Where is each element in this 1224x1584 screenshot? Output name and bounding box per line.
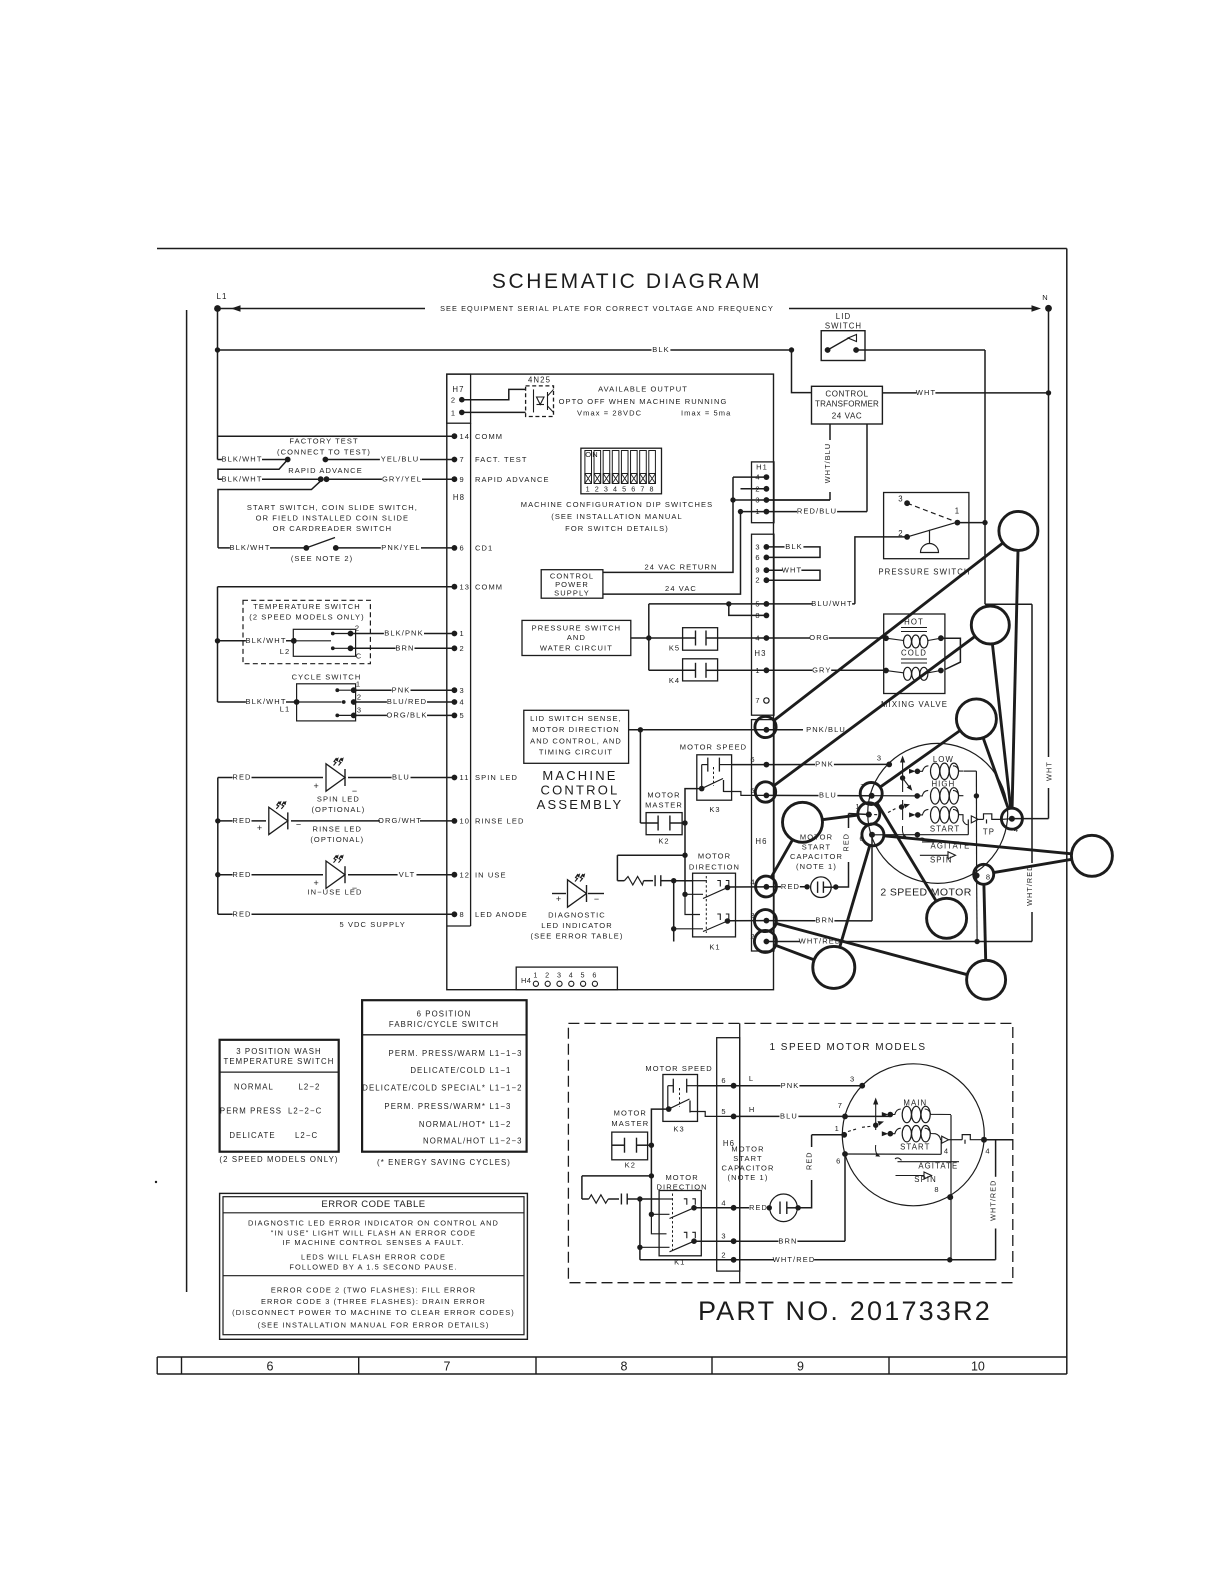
in-use LED D3 (215, 872, 220, 877)
svg-text:FABRIC/CYCLE SWITCH: FABRIC/CYCLE SWITCH (389, 1020, 499, 1029)
svg-text:LED INDICATOR: LED INDICATOR (541, 921, 613, 930)
svg-text:2: 2 (545, 971, 550, 980)
svg-text:LID: LID (836, 312, 851, 321)
motor terminal 6 (869, 832, 875, 838)
svg-text:BRN: BRN (395, 643, 414, 652)
svg-text:ASSEMBLY: ASSEMBLY (537, 797, 624, 812)
rinse LED D2 (215, 818, 220, 823)
wire BLU/WHT H3-5 (649, 603, 855, 605)
svg-text:RED/BLU: RED/BLU (797, 507, 837, 516)
svg-text:START: START (802, 842, 831, 851)
START winding (1 speed) (882, 1131, 889, 1136)
annotation line B to BLU pin (774, 636, 976, 786)
svg-text:MOTOR DIRECTION: MOTOR DIRECTION (532, 725, 620, 734)
svg-text:K2: K2 (658, 837, 669, 846)
1 speed motor models dashed box (568, 1023, 1012, 1282)
svg-text:Vmax = 28VDC: Vmax = 28VDC (577, 409, 642, 418)
svg-text:K3: K3 (709, 805, 720, 814)
svg-text:NORMAL/HOT: NORMAL/HOT (423, 1137, 486, 1146)
wire K1 to H6-4 RED (728, 886, 767, 888)
svg-text:BLU: BLU (392, 773, 410, 782)
svg-text:3: 3 (877, 754, 882, 763)
svg-text:LEDS WILL FLASH ERROR CODE: LEDS WILL FLASH ERROR CODE (301, 1252, 446, 1261)
wire WHT/RED row (1 speed) (640, 1259, 996, 1261)
svg-text:(CONNECT TO TEST): (CONNECT TO TEST) (277, 448, 371, 457)
annotation callout circle B (971, 606, 1009, 644)
resistor R1 (617, 880, 624, 882)
left connector pins (452, 433, 458, 439)
wire K1 to H6-3 BRN (1 speed) (694, 1240, 734, 1242)
svg-text:3: 3 (460, 686, 465, 695)
wire BLK jumper H3 3-6 (766, 547, 820, 558)
svg-text:BRN: BRN (778, 1236, 797, 1245)
svg-text:WHT/RED: WHT/RED (773, 1255, 816, 1264)
wire WHT jumper H3 9-2 (766, 570, 820, 580)
svg-text:8: 8 (650, 485, 655, 494)
svg-text:2: 2 (755, 576, 760, 585)
svg-text:L2: L2 (280, 647, 291, 656)
svg-text:N: N (1042, 293, 1049, 302)
wire motor right vertical (975, 771, 977, 875)
svg-text:START: START (930, 824, 960, 833)
svg-text:ORG/WHT: ORG/WHT (378, 816, 422, 825)
resistor R2 (582, 1198, 589, 1200)
wire ORG (766, 637, 886, 639)
svg-text:RAPID ADVANCE: RAPID ADVANCE (475, 475, 550, 484)
zone strip (157, 1356, 1067, 1358)
svg-text:MASTER: MASTER (611, 1119, 649, 1128)
svg-text:4N25: 4N25 (528, 376, 551, 385)
svg-text:1: 1 (356, 680, 361, 689)
svg-text:IN USE: IN USE (475, 870, 507, 879)
svg-text:OR FIELD INSTALLED COIN SL: OR FIELD INSTALLED COIN SLIDE (256, 514, 409, 523)
motor terminal 8 (974, 873, 980, 879)
motor speed selector (902, 758, 904, 792)
wire BLK to lid switch (215, 347, 220, 352)
svg-text:2 SPEED MOTOR: 2 SPEED MOTOR (880, 887, 971, 899)
svg-text:13: 13 (460, 582, 471, 591)
svg-text:7: 7 (838, 1101, 843, 1110)
svg-text:9: 9 (755, 566, 760, 575)
svg-text:FACTORY TEST: FACTORY TEST (289, 437, 358, 446)
diagnostic LED D4 (552, 893, 566, 895)
wire RED riser to terminal 1 (836, 862, 849, 887)
motor terminal 7 (869, 793, 875, 799)
svg-text:SPIN LED: SPIN LED (317, 795, 360, 804)
connector H4 (516, 967, 617, 990)
svg-text:+: + (314, 781, 320, 791)
wire N rail down (WHT) (1048, 308, 1050, 757)
svg-text:4: 4 (755, 634, 760, 643)
svg-text:H3: H3 (754, 649, 766, 658)
svg-text:7: 7 (640, 485, 645, 494)
svg-text:2: 2 (595, 485, 600, 494)
svg-text:MOTOR: MOTOR (731, 1145, 764, 1154)
svg-text:WHT/RED: WHT/RED (1025, 865, 1034, 906)
svg-text:1: 1 (755, 507, 760, 516)
svg-text:CYCLE SWITCH: CYCLE SWITCH (292, 673, 362, 682)
wire WHT/RED riser (1031, 912, 1033, 942)
svg-text:CAPACITOR: CAPACITOR (790, 852, 843, 861)
svg-text:L2−2−C: L2−2−C (288, 1107, 322, 1116)
svg-text:TEMPERATURE SWITCH: TEMPERATURE SWITCH (223, 1057, 334, 1066)
svg-text:3 POSITION WASH: 3 POSITION WASH (236, 1047, 322, 1056)
drawing frame right border (1066, 249, 1068, 1375)
svg-text:DIRECTION: DIRECTION (689, 863, 740, 872)
svg-text:SEE EQUIPMENT SERIAL PLATE: SEE EQUIPMENT SERIAL PLATE FOR CORRECT V… (440, 304, 774, 313)
svg-text:BRN: BRN (815, 916, 834, 925)
annotation line BRN pin to C8 (776, 923, 967, 974)
svg-text:OPTO OFF WHEN MACHINE RUNN: OPTO OFF WHEN MACHINE RUNNING (559, 397, 728, 406)
wire RED/BLU transformer to H1-1 (866, 424, 868, 512)
svg-text:ERROR CODE TABLE: ERROR CODE TABLE (321, 1199, 425, 1210)
svg-text:WHT: WHT (916, 388, 936, 397)
spin LED D1 (218, 777, 455, 779)
svg-text:6: 6 (721, 1076, 726, 1085)
svg-text:GRY/YEL: GRY/YEL (382, 474, 422, 483)
svg-text:L1−3: L1−3 (490, 1102, 512, 1111)
wire riser to pressure switch 2 (855, 537, 907, 604)
svg-text:FACT. TEST: FACT. TEST (475, 455, 528, 464)
svg-text:(SEE NOTE 2): (SEE NOTE 2) (291, 554, 353, 563)
annotation callout circle C3 (956, 699, 996, 739)
svg-text:ORG: ORG (809, 633, 829, 642)
wire K2 feed riser (639, 730, 641, 823)
motor terminal 7 (1 speed) (842, 1114, 848, 1120)
wire L1 annotation arrow (218, 308, 426, 310)
wire LED anode (218, 913, 455, 915)
annotation circle on terminal 8 (974, 864, 994, 884)
wire MAIN to terminal 8 (950, 1115, 952, 1260)
svg-text:MOTOR: MOTOR (614, 1109, 647, 1118)
svg-text:7: 7 (460, 455, 465, 464)
svg-text:SPIN LED: SPIN LED (475, 773, 518, 782)
svg-text:2: 2 (451, 396, 456, 405)
svg-text:6: 6 (631, 485, 636, 494)
wire pressure switch 1 to BLK drop (957, 522, 985, 524)
left connector strip (H8) (470, 423, 472, 926)
svg-text:PERM PRESS: PERM PRESS (220, 1107, 282, 1116)
svg-text:MOTOR: MOTOR (665, 1173, 698, 1182)
svg-text:5 VDC SUPPLY: 5 VDC SUPPLY (339, 920, 405, 929)
svg-text:4: 4 (755, 473, 760, 482)
svg-text:L: L (749, 1074, 754, 1083)
svg-text:8: 8 (621, 1360, 628, 1374)
svg-text:NORMAL/HOT*: NORMAL/HOT* (419, 1120, 486, 1129)
control power supply box (541, 570, 603, 599)
wire RED capacitor (1 speed) (734, 1207, 770, 1209)
wire PNK cycle (354, 689, 455, 691)
svg-text:(* ENERGY SAVING CYCLES): (* ENERGY SAVING CYCLES) (377, 1158, 511, 1167)
thermal protector TP (984, 814, 1002, 820)
svg-text:CONTROL: CONTROL (825, 390, 868, 399)
svg-text:CD1: CD1 (475, 544, 493, 553)
wire RED riser to terminal 1 (1 speed) (798, 1180, 812, 1208)
wire K1 to H6-4 RED (1 speed) (694, 1207, 734, 1209)
svg-text:+: + (314, 878, 320, 888)
svg-text:+: + (257, 823, 263, 833)
svg-text:3: 3 (755, 496, 760, 505)
svg-text:1: 1 (955, 507, 960, 516)
svg-text:K2: K2 (625, 1161, 636, 1170)
svg-text:RINSE LED: RINSE LED (475, 817, 525, 826)
wire K3 to H6-6 (1 speed) (698, 1085, 734, 1087)
wire WHT to motor terminal 4 (1012, 818, 1049, 820)
svg-text:11: 11 (460, 773, 470, 782)
svg-text:TP: TP (983, 828, 995, 837)
svg-text:4: 4 (944, 1147, 949, 1156)
annotation circle on terminal 6 (862, 824, 884, 846)
svg-text:(NOTE 1): (NOTE 1) (728, 1173, 769, 1182)
svg-text:CONTROL: CONTROL (541, 783, 620, 798)
annotation callout circle A (999, 511, 1038, 550)
svg-text:WHT/BLU: WHT/BLU (823, 443, 832, 484)
svg-text:ERROR CODE 2 (TWO FLASHES): ERROR CODE 2 (TWO FLASHES): FILL ERROR (271, 1286, 476, 1295)
motor terminal 4 (1 speed) (981, 1137, 987, 1143)
motor terminal 4 (1009, 816, 1015, 822)
svg-text:2: 2 (460, 644, 465, 653)
svg-text:MASTER: MASTER (645, 801, 683, 810)
svg-text:GRY: GRY (812, 665, 831, 674)
svg-text:(2 SPEED MODELS ONLY): (2 SPEED MODELS ONLY) (249, 613, 364, 622)
svg-text:DELICATE/COLD SPECIAL*: DELICATE/COLD SPECIAL* (362, 1084, 486, 1093)
wire COMM 14 (218, 435, 455, 437)
start switch (218, 547, 306, 549)
svg-text:BLK: BLK (652, 345, 669, 354)
svg-text:ERROR CODE 3 (THREE FLASHE: ERROR CODE 3 (THREE FLASHES): DRAIN ERRO… (261, 1297, 486, 1306)
pressure switch and water circuit box (522, 620, 631, 655)
svg-text:RINSE LED: RINSE LED (313, 825, 363, 834)
wire H1 pin2 (741, 488, 767, 490)
lid switch S1 (821, 331, 865, 361)
motor start capacitor C4 (770, 1194, 798, 1222)
svg-text:RED: RED (842, 833, 851, 851)
svg-text:K5: K5 (669, 644, 680, 653)
annotation line C4 to RED pin (771, 840, 792, 878)
connector H1 (752, 462, 775, 523)
svg-text:NORMAL: NORMAL (234, 1083, 274, 1092)
wire BRN temp (351, 647, 455, 649)
svg-text:3: 3 (357, 706, 362, 715)
control transformer T1 box (812, 386, 883, 424)
svg-text:RED: RED (781, 882, 800, 891)
svg-text:TIMING CIRCUIT: TIMING CIRCUIT (539, 748, 613, 757)
svg-text:1: 1 (586, 485, 591, 494)
svg-text:SCHEMATIC DIAGRAM: SCHEMATIC DIAGRAM (492, 270, 762, 293)
svg-text:WHT/RED: WHT/RED (989, 1180, 998, 1221)
capacitor C1 (654, 875, 656, 886)
svg-text:9: 9 (797, 1360, 804, 1374)
wire BLU to motor (766, 794, 871, 796)
error code table (220, 1193, 528, 1339)
svg-text:START: START (900, 1143, 930, 1152)
svg-text:DIAGNOSTIC LED ERROR INDICA: DIAGNOSTIC LED ERROR INDICATOR ON CONTRO… (248, 1218, 499, 1227)
START winding (909, 812, 916, 817)
svg-text:IN−USE LED: IN−USE LED (308, 888, 363, 897)
motor terminal 1 (866, 812, 872, 818)
wire rail 13 to switches (217, 587, 219, 702)
svg-text:K1: K1 (709, 943, 720, 952)
svg-text:24 VAC RETURN: 24 VAC RETURN (645, 563, 718, 572)
svg-text:L1−2: L1−2 (490, 1120, 512, 1129)
svg-text:WHT: WHT (1045, 761, 1054, 781)
svg-text:2: 2 (355, 624, 360, 633)
svg-text:H4: H4 (521, 976, 531, 985)
wire COMM 13 (218, 586, 455, 588)
motor terminal 1 (1 speed) (841, 1132, 847, 1138)
svg-text:(OPTIONAL): (OPTIONAL) (310, 835, 364, 844)
svg-text:−: − (296, 820, 302, 830)
annotation line C5 to terminal 8 (994, 859, 1072, 872)
connector H6 (1 speed) (739, 1023, 741, 1282)
mixing valve HOT solenoid (883, 635, 889, 641)
svg-text:(OPTIONAL): (OPTIONAL) (311, 805, 365, 814)
annotation line C3 to terminal 4 (983, 738, 1008, 809)
svg-text:RAPID ADVANCE: RAPID ADVANCE (288, 466, 363, 475)
wire K4 to H3-1 (718, 669, 767, 671)
wire mixing valve common (941, 638, 961, 669)
svg-text:K3: K3 (673, 1125, 684, 1134)
svg-text:6: 6 (755, 553, 760, 562)
annotation callout circle C5 (1071, 835, 1112, 876)
svg-text:L2−2: L2−2 (299, 1083, 321, 1092)
svg-text:DIAGNOSTIC: DIAGNOSTIC (548, 911, 606, 920)
mixing valve box (884, 614, 945, 694)
svg-text:(DISCONNECT POWER TO MACHIN: (DISCONNECT POWER TO MACHINE TO CLEAR ER… (232, 1308, 515, 1317)
svg-text:4: 4 (721, 1198, 726, 1207)
svg-text:L1: L1 (216, 292, 227, 301)
svg-text:COMM: COMM (475, 432, 503, 441)
wire BLK drop right side (984, 350, 986, 604)
motor selector (1 speed) (875, 1100, 877, 1130)
svg-text:6: 6 (750, 755, 755, 764)
svg-text:(NOTE 1): (NOTE 1) (796, 862, 837, 871)
svg-text:1: 1 (451, 408, 456, 417)
svg-text:5: 5 (622, 485, 627, 494)
wire K1 to H6-3 BRN (728, 920, 767, 922)
svg-text:H1: H1 (756, 463, 768, 472)
svg-text:RED: RED (232, 816, 251, 825)
annotation circle on PNK/BLU pin (755, 716, 776, 737)
svg-text:8: 8 (934, 1185, 939, 1194)
svg-text:RED: RED (749, 1203, 768, 1212)
svg-text:24 VAC: 24 VAC (832, 412, 863, 421)
svg-text:3: 3 (898, 495, 903, 504)
svg-text:K4: K4 (669, 676, 680, 685)
svg-text:SPIN: SPIN (930, 855, 953, 864)
svg-text:"IN USE" LIGHT WILL FLASH: "IN USE" LIGHT WILL FLASH AN ERROR CODE (271, 1228, 476, 1237)
svg-text:4: 4 (613, 485, 618, 494)
annotation line C4 to terminal 1 (822, 815, 858, 820)
wire rapid advance lever to start rail (218, 481, 321, 548)
svg-text:PNK/YEL: PNK/YEL (381, 543, 420, 552)
motor terminal 8 (1 speed) (947, 1194, 953, 1200)
svg-text:L1−1−2: L1−1−2 (490, 1084, 523, 1093)
svg-text:OR CARDREADER SWITCH: OR CARDREADER SWITCH (273, 524, 393, 533)
svg-text:BLK/WHT: BLK/WHT (229, 543, 270, 552)
svg-text:LID SWITCH SENSE,: LID SWITCH SENSE, (530, 714, 622, 723)
svg-text:DELICATE/COLD: DELICATE/COLD (410, 1066, 486, 1075)
wire terminal 4 to WHT/RED riser (984, 1139, 1013, 1141)
wire start winding common (872, 834, 917, 836)
svg-text:YEL/BLU: YEL/BLU (381, 455, 420, 464)
drawing frame top border (157, 248, 1067, 250)
svg-text:7: 7 (444, 1360, 451, 1374)
svg-text:PNK/BLU: PNK/BLU (806, 725, 846, 734)
wire WHT/RED riser (1 speed) (995, 1140, 997, 1177)
annotation line B to terminal 4 (992, 644, 1010, 808)
3 position wash temperature switch table (220, 1040, 339, 1152)
wire BLK to WHT/RED top (985, 603, 1032, 605)
svg-text:MOTOR SPEED: MOTOR SPEED (645, 1064, 712, 1073)
wire 24 VAC RETURN (603, 477, 733, 572)
svg-text:(SEE INSTALLATION MANUAL: (SEE INSTALLATION MANUAL (551, 512, 683, 521)
svg-text:6: 6 (460, 544, 465, 553)
relay contact K4 (683, 659, 718, 681)
relay contact K5 (683, 628, 718, 651)
annotation circle on BRN pin (754, 910, 776, 932)
svg-text:2: 2 (755, 484, 760, 493)
svg-text:COLD: COLD (901, 649, 927, 658)
annotation line terminal 8 to C8 (984, 884, 986, 960)
svg-text:PRESSURE SWITCH: PRESSURE SWITCH (878, 568, 970, 577)
motor terminal 3 (886, 762, 892, 768)
wire K5 to H3-4 (718, 637, 767, 639)
svg-text:3: 3 (850, 1075, 855, 1084)
wire 24 VAC (603, 512, 741, 594)
wire PNK/BLU (629, 729, 803, 731)
svg-text:START: START (733, 1154, 762, 1163)
connector H3 (752, 534, 775, 715)
6 position fabric cycle switch table (362, 1000, 526, 1151)
dip switch bank (581, 448, 662, 494)
annotation circle on terminal 7 (860, 783, 882, 805)
wire H1 pin4 (733, 476, 766, 478)
svg-text:START SWITCH, COIN SLIDE S: START SWITCH, COIN SLIDE SWITCH, (247, 503, 418, 512)
svg-text:RED: RED (805, 1151, 814, 1169)
svg-text:−: − (594, 894, 600, 904)
2 speed motor M1 body (868, 743, 1008, 883)
wire GRY (766, 669, 886, 671)
annotation line A to terminal 4 (1012, 550, 1018, 808)
svg-text:L1: L1 (280, 705, 291, 714)
machine control assembly box (447, 374, 774, 990)
stray dot (155, 1181, 157, 1183)
svg-text:C: C (356, 652, 363, 661)
centrifugal switch contact (971, 816, 978, 823)
temperature switch inner (293, 629, 355, 656)
annotation callout circle C4 (783, 802, 823, 842)
svg-text:TEMPERATURE SWITCH: TEMPERATURE SWITCH (253, 602, 361, 611)
annotation circle on terminal 4 (1001, 808, 1022, 829)
wire BLU/WHT riser (648, 604, 650, 670)
svg-text:MIXING VALVE: MIXING VALVE (881, 700, 948, 709)
svg-text:2: 2 (721, 1250, 726, 1259)
svg-text:6 POSITION: 6 POSITION (417, 1010, 472, 1019)
svg-text:4: 4 (985, 1147, 990, 1156)
annotation circle on RED pin (756, 876, 777, 897)
svg-text:7: 7 (755, 696, 760, 705)
motor start capacitor C2 (811, 877, 832, 898)
svg-text:H6: H6 (755, 837, 767, 846)
annotation line terminal 6 to C7 (840, 845, 870, 947)
svg-text:3: 3 (721, 1232, 726, 1241)
svg-text:RED: RED (232, 773, 251, 782)
svg-text:RED: RED (232, 909, 251, 918)
svg-text:1: 1 (460, 629, 465, 638)
connector H6 (752, 720, 775, 951)
svg-text:5: 5 (460, 711, 465, 720)
